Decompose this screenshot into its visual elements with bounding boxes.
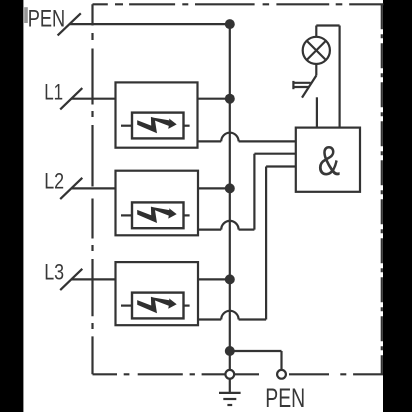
break slash L3 [60, 269, 82, 290]
break slash L2 [60, 178, 82, 199]
svg-text:PEN: PEN [265, 383, 305, 412]
switch fixed stub to AND box [316, 97, 318, 127]
PE tap drop to terminal [280, 351, 282, 370]
junction dot PEN top [225, 19, 235, 29]
wire L3 left [71, 278, 116, 280]
signal wire F3 vertical riser [265, 167, 267, 320]
lead left F2 [121, 214, 132, 216]
disconnect device upper line [293, 82, 310, 84]
lead left F3 [121, 305, 132, 307]
svg-text:PEN: PEN [28, 5, 65, 32]
disconnect device bar [292, 81, 294, 89]
earth bar 2 [223, 398, 236, 400]
right black strip [383, 0, 412, 412]
junction dot L3 [225, 274, 235, 284]
signal wire F2 to monitoring [198, 229, 221, 231]
wire L1 to bus [198, 98, 230, 100]
disconnect device lower line [293, 86, 309, 88]
lamp bottom stub [315, 64, 317, 76]
lamp feed wire from AND box top [339, 26, 341, 128]
junction dot L2 [225, 183, 235, 193]
crossover hop F3 [221, 311, 238, 320]
enclosure border bottom (dash-dot) [93, 373, 384, 375]
lightning arrow F1 [137, 117, 177, 133]
crossover hop F1 [221, 133, 238, 142]
svg-text:L3: L3 [44, 260, 64, 285]
surge arrester F3 module box (L3) [116, 262, 199, 325]
svg-text:&: & [318, 137, 341, 184]
spark gap symbol box F3 [132, 293, 184, 319]
earth stub below terminal [229, 379, 231, 393]
lead right F1 [184, 125, 190, 127]
PE tap wire from bus [230, 350, 282, 352]
grey marker bar [24, 7, 28, 23]
signal wire F3 to monitoring [198, 318, 221, 320]
lamp top stub [315, 26, 317, 38]
wire L3 to bus [198, 278, 230, 280]
wire L1 left [71, 98, 116, 100]
enclosure border right (dash-dot) [381, 4, 383, 374]
wire PEN/N bus vertical [229, 24, 231, 370]
signal wire F3 into AND box [266, 165, 296, 167]
signal wire F2 vertical riser [253, 154, 255, 230]
break slash L1 [60, 88, 82, 109]
enclosure border left (dash-dot) [91, 4, 93, 374]
lead right F2 [184, 214, 190, 216]
earth bar 3 [227, 404, 232, 406]
wire PEN top [69, 23, 230, 25]
junction dot bottom [225, 346, 235, 356]
svg-text:L1: L1 [44, 80, 63, 105]
surge arrester F2 module box (L2) [116, 171, 199, 236]
signal wire F2 horizontal [239, 229, 255, 231]
lead right F3 [184, 305, 190, 307]
lamp X stroke 1 [307, 41, 326, 60]
terminal circle PEN earth [225, 370, 234, 379]
spark gap symbol box F2 [132, 202, 184, 228]
switch blade (disconnector contact) [302, 76, 316, 98]
indicator lamp H1 [303, 37, 330, 64]
lightning arrow F3 [137, 297, 177, 313]
terminal circle PEN out [277, 370, 286, 379]
earth bar 1 [219, 392, 241, 394]
spark gap symbol box F1 [132, 113, 184, 139]
signal wire F2 into AND box [254, 153, 296, 155]
wire L2 left [71, 187, 116, 189]
signal wire F1 to monitoring [198, 140, 222, 142]
signal wire F1 to AND box [239, 140, 296, 142]
break slash PEN [58, 13, 81, 35]
junction dot L1 [225, 94, 235, 104]
crossover hop F2 [221, 221, 238, 230]
svg-text:L2: L2 [44, 169, 64, 194]
lead left F1 [121, 125, 132, 127]
left black strip [0, 0, 23, 412]
enclosure border top (dash-dot) [93, 3, 384, 5]
lamp X stroke 2 [307, 41, 326, 60]
lamp loop top wire [316, 24, 339, 26]
wire L2 to bus [198, 187, 230, 189]
signal wire F3 horizontal [239, 318, 267, 320]
lightning arrow F2 [137, 207, 177, 223]
surge arrester F1 module box (L1) [116, 82, 198, 147]
AND-gate monitoring box U1 [296, 128, 360, 192]
